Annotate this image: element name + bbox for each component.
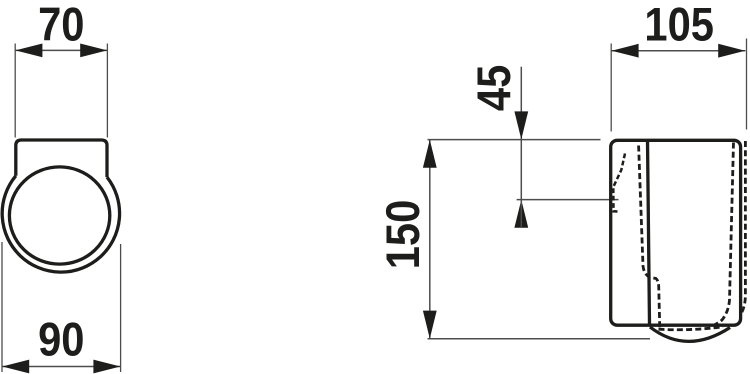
reference line top (cup rim level) [428, 139, 601, 141]
hidden glass right inner silhouette (dashed) [709, 143, 734, 327]
cup body outline (side view) [611, 140, 741, 325]
dimension line 105 [611, 50, 745, 52]
dimension line 45 upper shaft [520, 67, 522, 140]
svg-text:45: 45 [469, 65, 521, 111]
ring inner circle [9, 167, 109, 264]
extension line 105 right [746, 39, 748, 130]
arrow 90 left [2, 360, 29, 374]
arrow 105 right [718, 44, 745, 58]
reference line bottom (cup bottom level) [428, 338, 651, 340]
glass bottom arc [650, 327, 730, 341]
svg-text:150: 150 [378, 200, 430, 270]
arrow 45 up [514, 200, 528, 228]
svg-text:105: 105 [644, 0, 714, 51]
hidden glass widest bulge right (dashed) [741, 141, 746, 315]
holder ring front edge [648, 140, 650, 324]
hidden glass left silhouette (dashed) [639, 146, 660, 330]
arrow 90 right [93, 360, 120, 374]
arrow 150 down [423, 311, 437, 339]
arrow 150 up [423, 140, 437, 168]
svg-text:70: 70 [38, 0, 84, 51]
extension line 105 left [610, 44, 612, 132]
svg-text:90: 90 [38, 314, 84, 366]
dimension line 70 [15, 49, 107, 51]
dimension line 45 middle [520, 140, 522, 200]
bracket (wall holder, front view) [16, 140, 107, 177]
hidden glass bottom (dashed) [659, 327, 724, 330]
holder outer silhouette arc [2, 176, 119, 272]
dimension line 45 lower shaft [520, 200, 522, 227]
arrow 45 down [514, 111, 528, 139]
reference line 45 below rim [517, 199, 619, 201]
dimension line 90 [2, 366, 121, 368]
arrow 70 right [80, 44, 107, 58]
arrow 105 left [612, 44, 639, 58]
extension line 90 left [1, 242, 3, 372]
extension line 70 left [14, 44, 16, 138]
hidden wall bracket (dashed) [613, 154, 625, 212]
arrow 70 left [15, 44, 42, 58]
extension line 90 right [120, 244, 122, 372]
dimension line 150 [429, 140, 431, 339]
extension line 70 right [106, 44, 108, 138]
